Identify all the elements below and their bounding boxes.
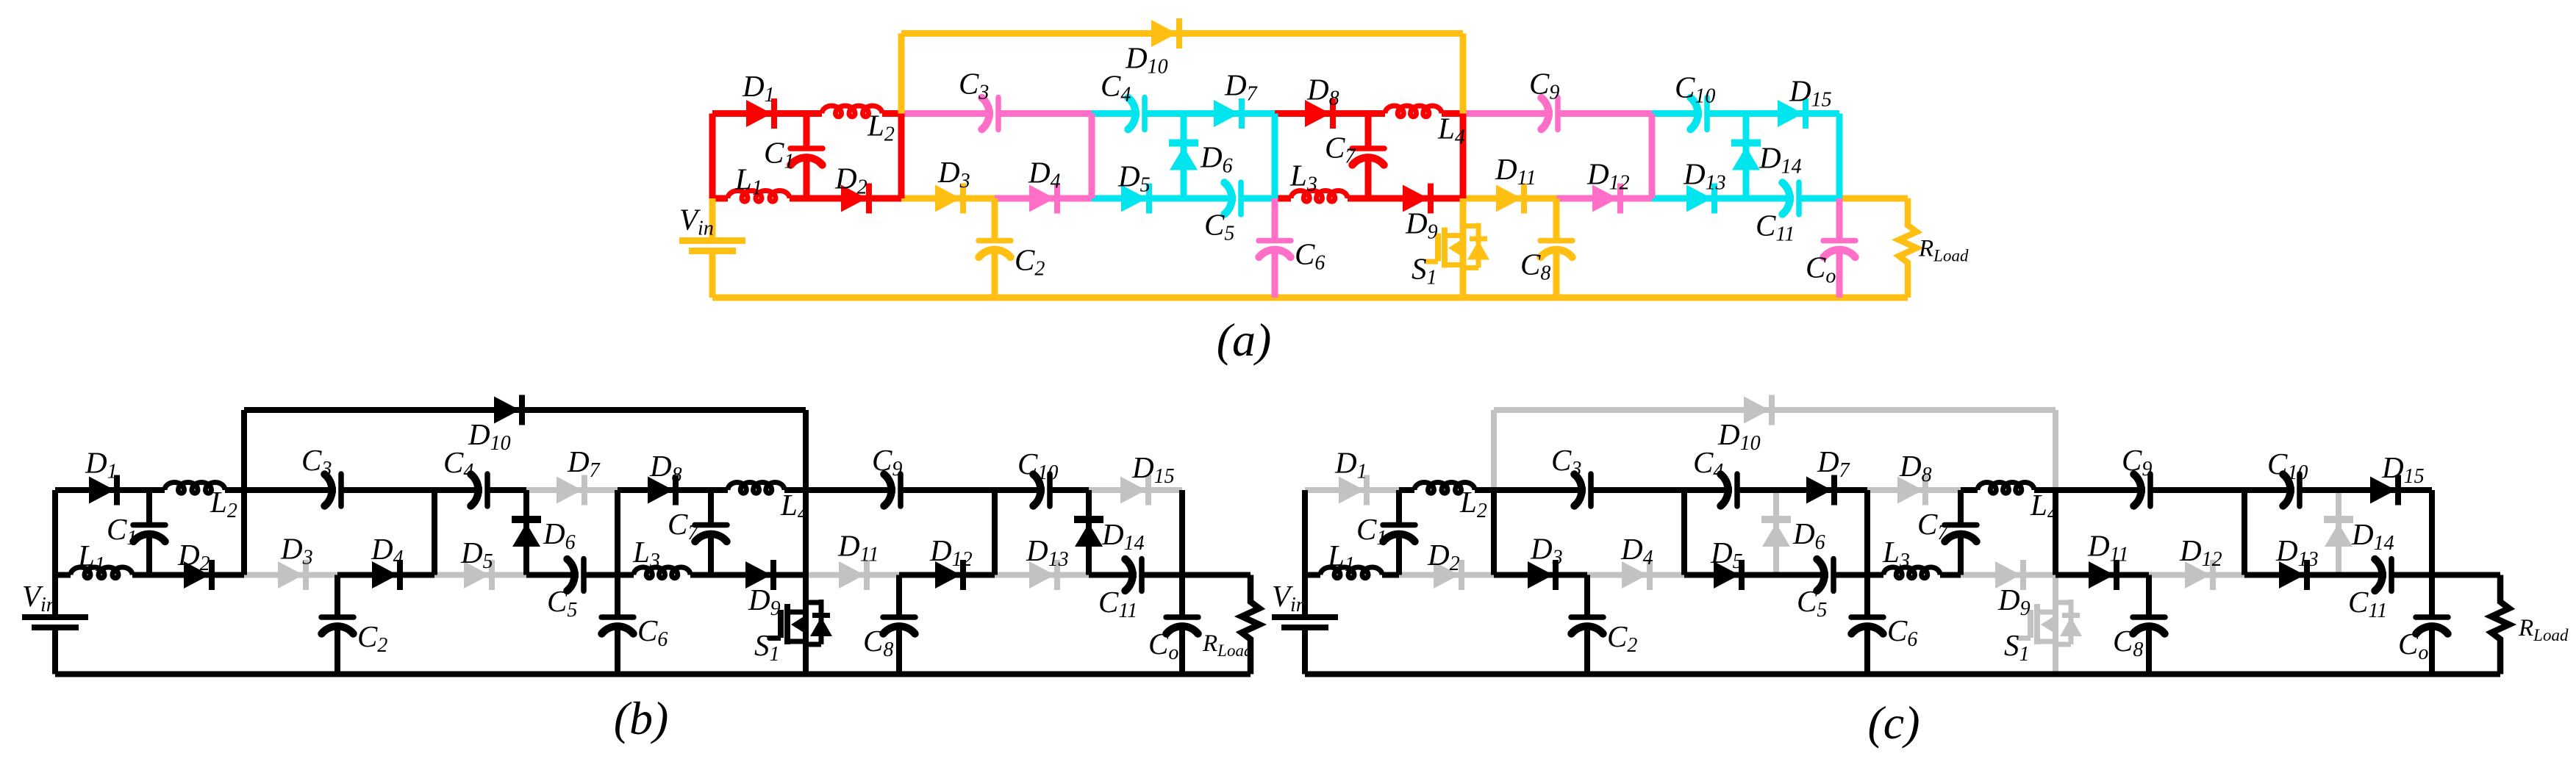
capacitor C9 — [2147, 474, 2153, 506]
wire U1 — [712, 110, 806, 117]
capacitor C9 — [1555, 98, 1561, 130]
capacitor C5 — [1831, 559, 1836, 591]
diode D14 branch — [1743, 114, 1750, 199]
diode D10 — [1151, 20, 1177, 47]
wire VG — [2242, 490, 2247, 575]
wire LO13 — [1839, 195, 1908, 202]
inductor L1 — [1320, 567, 1382, 578]
diode D8 — [1897, 477, 1923, 504]
wire LO9 — [2056, 572, 2149, 578]
capacitor C5 — [1238, 182, 1244, 215]
diode D13 — [1686, 185, 1712, 212]
source Vin — [52, 575, 58, 615]
wire VE1 — [1272, 114, 1278, 199]
svg-text:(b): (b) — [614, 692, 669, 744]
capacitor C9 — [898, 474, 904, 506]
inductor L4 — [1385, 106, 1442, 117]
wire VE1 — [615, 490, 620, 575]
diode D3 — [935, 185, 961, 212]
wire LO4 — [1587, 572, 1684, 578]
diode D3 — [278, 561, 304, 589]
wire LO3 — [244, 572, 337, 578]
wire VF1 — [1460, 34, 1467, 114]
diode D5 — [1714, 561, 1739, 589]
diode D13 — [1029, 561, 1055, 589]
wire LO6 — [1776, 572, 1828, 578]
wire LO13 — [2432, 572, 2500, 578]
diode D3 — [1528, 561, 1553, 589]
capacitor Co branch — [1179, 575, 1185, 618]
diode D2 — [184, 561, 210, 589]
wire U10 — [2339, 487, 2432, 493]
inductor L4 — [1978, 482, 2034, 493]
capacitor C4 — [1142, 98, 1148, 130]
diode D4 — [1029, 185, 1055, 212]
diode D11 — [2089, 561, 2114, 589]
inductor L2 — [822, 106, 882, 117]
capacitor C8 branch — [896, 575, 902, 618]
wire LO10 — [2149, 572, 2244, 578]
capacitor C2 branch — [1584, 575, 1590, 618]
diode D5 — [464, 561, 490, 589]
diode D10 — [494, 397, 520, 424]
wire LO8 — [1368, 195, 1463, 202]
inductor L2 — [165, 483, 225, 494]
wire VA2 — [241, 490, 247, 575]
diode D7 — [557, 477, 582, 504]
diode D9 — [1995, 561, 2021, 589]
wire VH1 — [1836, 114, 1843, 199]
wire U10 — [1089, 487, 1182, 493]
capacitor C2 branch — [334, 575, 340, 618]
diode D12 — [2185, 561, 2211, 589]
diode D6 branch — [1181, 114, 1187, 199]
wire U4 — [1092, 110, 1139, 117]
capacitor C4 — [484, 474, 490, 506]
wire bottom rail — [55, 672, 1251, 677]
diode D5 — [1121, 185, 1147, 212]
wire LO11 — [995, 572, 1089, 578]
wire VG — [1649, 114, 1656, 199]
wire U6 — [1867, 487, 1961, 493]
wire U2 — [806, 110, 822, 117]
capacitor C6 branch — [1864, 575, 1870, 618]
wire top rail — [901, 30, 1463, 37]
wire LO5 — [1684, 572, 1776, 578]
wire VF2 — [2053, 490, 2058, 575]
capacitor C8 branch — [1553, 198, 1560, 241]
wire V0 — [1302, 490, 1308, 575]
wire VA1 — [1491, 410, 1497, 490]
switch S1 — [803, 575, 809, 674]
diode D8 — [1305, 100, 1331, 127]
wire VA1 — [241, 410, 247, 490]
diode D1 — [746, 100, 772, 127]
wire LO3 — [901, 195, 995, 202]
wire U4 — [1684, 487, 1732, 493]
diode D13 — [2279, 561, 2305, 589]
capacitor Co branch — [1836, 198, 1843, 241]
capacitor C7 branch — [708, 490, 714, 525]
wire top rail — [1494, 407, 2056, 413]
diode D9 — [1403, 185, 1428, 212]
source Vin — [709, 198, 716, 238]
wire LO7 — [618, 572, 634, 578]
capacitor C6 branch — [1272, 198, 1278, 241]
wire LO10 — [899, 572, 995, 578]
diode D4 — [1622, 561, 1647, 589]
inductor L3 — [634, 567, 690, 578]
wire U10 — [1746, 110, 1839, 117]
wire U7 — [1368, 110, 1385, 117]
diode D8 — [648, 477, 673, 504]
wire U3 — [244, 487, 336, 493]
capacitor C4 — [1734, 474, 1740, 506]
diode D6 branch — [1773, 490, 1779, 575]
wire bottom rail — [1305, 672, 2500, 677]
svg-text:(c): (c) — [1867, 697, 1920, 749]
wire VA2 — [898, 114, 905, 199]
diode D2 — [841, 185, 867, 212]
capacitor C1 branch — [1396, 490, 1402, 525]
diode D12 — [935, 561, 961, 589]
wire LO4 — [337, 572, 434, 578]
capacitor C11 — [1139, 559, 1145, 591]
wire VH1 — [2429, 490, 2435, 575]
wire U1 — [55, 487, 149, 493]
wire VB — [1681, 490, 1687, 575]
wire LO1 — [55, 572, 71, 578]
capacitor C7 branch — [1958, 490, 1964, 525]
wire V0 — [709, 114, 716, 199]
wire LO9 — [1463, 195, 1556, 202]
wire VB — [432, 490, 437, 575]
wire VG — [992, 490, 998, 575]
capacitor C7 branch — [1365, 114, 1372, 149]
diode D7 — [1806, 477, 1832, 504]
capacitor C3 — [338, 474, 344, 506]
wire VA1 — [898, 34, 905, 114]
diode D2 — [1434, 561, 1459, 589]
inductor L1 — [71, 567, 132, 578]
capacitor Co branch — [2429, 575, 2435, 618]
switch S1 — [2053, 575, 2058, 674]
wire VH1 — [1179, 490, 1185, 575]
wire U9 — [1652, 110, 1702, 117]
resistor RLoad — [2491, 575, 2509, 674]
wire U8 — [2056, 487, 2145, 493]
wire LO7 — [1867, 572, 1883, 578]
diode D15 — [1778, 100, 1803, 127]
wire VF1 — [2053, 410, 2058, 490]
wire LO8 — [711, 572, 806, 578]
wire LO12 — [1746, 195, 1794, 202]
wire LO2 — [806, 195, 901, 202]
diode D1 — [1339, 477, 1364, 504]
wire U6 — [1275, 110, 1368, 117]
wire U2 — [1399, 487, 1414, 493]
capacitor C10 — [1047, 474, 1053, 506]
wire VF2 — [803, 490, 809, 575]
capacitor C3 — [995, 98, 1001, 130]
capacitor C1 branch — [146, 490, 152, 525]
wire VE1 — [1864, 490, 1870, 575]
svg-text:(a): (a) — [1217, 314, 1272, 366]
wire U8 — [806, 487, 895, 493]
switch S1 — [1460, 198, 1467, 298]
wire U2 — [149, 487, 165, 493]
inductor L4 — [728, 482, 784, 493]
source Vin — [1302, 575, 1308, 615]
diode D4 — [372, 561, 398, 589]
wire LO6 — [526, 572, 579, 578]
diode D6 branch — [523, 490, 529, 575]
wire U1 — [1305, 487, 1399, 493]
wire LO3 — [1494, 572, 1587, 578]
wire LO7 — [1275, 195, 1291, 202]
wire U4 — [434, 487, 482, 493]
wire U5 — [1184, 110, 1275, 117]
wire U3 — [1494, 487, 1586, 493]
diode D15 — [1120, 477, 1146, 504]
wire LO10 — [1556, 195, 1652, 202]
capacitor C10 — [1704, 98, 1710, 130]
capacitor C3 — [1588, 474, 1594, 506]
capacitor C11 — [2389, 559, 2394, 591]
wire LO13 — [1182, 572, 1251, 578]
wire U7 — [711, 487, 728, 493]
diode D15 — [2370, 477, 2396, 504]
wire LO6 — [1184, 195, 1236, 202]
wire VF1 — [803, 410, 809, 490]
wire LO8 — [1961, 572, 2056, 578]
inductor L3 — [1883, 567, 1940, 578]
diode D14 branch — [2336, 490, 2341, 575]
capacitor C6 branch — [615, 575, 620, 618]
wire U3 — [901, 110, 993, 117]
wire LO5 — [434, 572, 526, 578]
wire LO4 — [995, 195, 1092, 202]
inductor L3 — [1291, 190, 1348, 201]
wire U6 — [618, 487, 711, 493]
wire top rail — [244, 407, 806, 413]
wire LO11 — [2244, 572, 2339, 578]
diode D11 — [839, 561, 865, 589]
capacitor C11 — [1796, 182, 1802, 215]
diode D14 branch — [1086, 490, 1092, 575]
wire LO9 — [806, 572, 899, 578]
wire U9 — [995, 487, 1045, 493]
wire LO2 — [149, 572, 244, 578]
wire U8 — [1463, 110, 1553, 117]
wire U9 — [2244, 487, 2294, 493]
capacitor C10 — [2297, 474, 2303, 506]
wire LO2 — [1399, 572, 1494, 578]
wire LO12 — [1089, 572, 1137, 578]
wire V0 — [52, 490, 58, 575]
wire VB — [1089, 114, 1095, 199]
wire LO1 — [712, 195, 728, 202]
wire U5 — [526, 487, 618, 493]
diode D7 — [1214, 100, 1239, 127]
diode D12 — [1592, 185, 1618, 212]
diode D9 — [745, 561, 771, 589]
wire LO12 — [2339, 572, 2386, 578]
capacitor C5 — [581, 559, 587, 591]
diode D10 — [1744, 397, 1770, 424]
diode D1 — [89, 477, 115, 504]
inductor L1 — [728, 191, 790, 202]
diode D11 — [1496, 185, 1522, 212]
wire LO1 — [1305, 572, 1320, 578]
capacitor C1 branch — [804, 114, 810, 149]
wire LO5 — [1092, 195, 1184, 202]
capacitor C2 branch — [992, 198, 998, 241]
resistor RLoad — [1899, 198, 1917, 298]
capacitor C8 branch — [2146, 575, 2152, 618]
wire U5 — [1776, 487, 1867, 493]
wire VF2 — [1460, 114, 1467, 199]
wire bottom rail — [712, 295, 1908, 301]
wire VA2 — [1491, 490, 1497, 575]
resistor RLoad — [1242, 575, 1259, 674]
wire LO11 — [1652, 195, 1746, 202]
wire U7 — [1961, 487, 1978, 493]
inductor L2 — [1414, 483, 1475, 494]
